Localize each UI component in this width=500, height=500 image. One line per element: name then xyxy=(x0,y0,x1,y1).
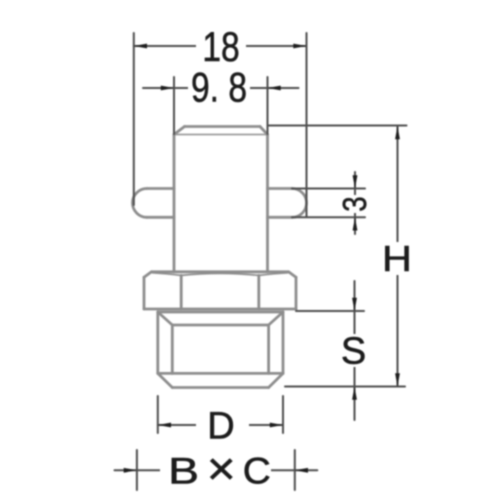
dim H arrow top xyxy=(395,126,400,139)
hex bottom edge xyxy=(144,308,296,311)
thread right edge xyxy=(282,312,285,373)
shaft chamfer line xyxy=(174,134,268,136)
shaft left edge xyxy=(173,135,176,272)
dim BxC left extension line xyxy=(136,450,138,490)
thread bottom-right chamfer xyxy=(269,373,283,387)
dim D line xyxy=(158,424,283,426)
dim D left extension line xyxy=(157,396,159,433)
crossbar bottom-left segment xyxy=(147,216,174,219)
svg-text:3: 3 xyxy=(337,196,374,211)
svg-text:H: H xyxy=(382,240,412,280)
crossbar bottom-right segment xyxy=(268,216,293,219)
dim 3 arrow top xyxy=(353,175,358,188)
thread bottom edge xyxy=(172,386,268,389)
dim 9.8 right extension line xyxy=(267,77,269,134)
dim 3 top extension line xyxy=(292,188,365,190)
dim 3 line middle xyxy=(354,189,356,218)
dim H line xyxy=(397,126,399,387)
thread top edge xyxy=(158,311,283,314)
dim 3 bottom extension line xyxy=(292,216,365,218)
dim 9.8 line middle xyxy=(174,87,268,89)
dim 9.8 left extension line xyxy=(173,77,175,134)
dim D arrow left xyxy=(158,423,171,428)
dim 18 arrow left xyxy=(134,44,147,49)
hex top-right chamfer xyxy=(289,272,297,278)
svg-text:C: C xyxy=(243,451,271,492)
crossbar right cap xyxy=(292,189,306,218)
dim S arrow bottom xyxy=(352,387,357,400)
dim D arrow right xyxy=(270,423,283,428)
dim 18 line xyxy=(134,45,307,47)
hex top-left chamfer xyxy=(144,272,152,278)
thread left edge xyxy=(156,312,159,373)
text masks xyxy=(160,30,411,484)
svg-text:×: × xyxy=(207,444,236,495)
svg-text:B: B xyxy=(168,450,199,492)
svg-text:18: 18 xyxy=(202,24,239,70)
dim 9.8 line left leader xyxy=(143,87,174,89)
dim S arrow top xyxy=(352,298,357,311)
thread bottom-left chamfer xyxy=(158,373,173,387)
dim S line xyxy=(354,281,356,420)
dim 9.8 arrow right xyxy=(268,86,281,91)
dim BxC right leader xyxy=(295,469,318,471)
dim S top extension line xyxy=(296,310,364,312)
hex left face arc xyxy=(152,273,181,276)
shaft right edge xyxy=(266,135,269,272)
thread inner right line xyxy=(267,325,270,373)
hex right edge xyxy=(295,277,298,309)
shaft top-right chamfer xyxy=(260,127,268,135)
dim 9.8 line right leader xyxy=(268,87,299,89)
crossbar top-left segment xyxy=(147,187,174,190)
hex left edge xyxy=(143,277,146,309)
svg-text:D: D xyxy=(207,405,234,447)
dim 3 lower leader xyxy=(354,217,356,234)
hex right face arc xyxy=(259,273,288,276)
hex top edge xyxy=(152,270,289,273)
dim BxC right extension line xyxy=(294,450,296,490)
dim 18 right extension line xyxy=(306,33,308,217)
thread top-right chamfer face line xyxy=(269,312,283,325)
dim BxC line middle xyxy=(137,469,295,471)
dim H top extension line xyxy=(268,125,407,127)
hex right face line xyxy=(257,275,260,309)
thread top-left chamfer face line xyxy=(158,312,173,325)
crossbar top-right segment xyxy=(268,187,293,190)
hex left face line xyxy=(180,275,183,309)
thread chamfer line xyxy=(158,372,283,375)
dim BxC left leader xyxy=(115,469,137,471)
shaft top-left chamfer xyxy=(174,127,185,135)
dim 18 arrow right xyxy=(293,44,306,49)
dim BxC arrow right xyxy=(295,468,308,473)
dim 3 arrow bottom xyxy=(353,217,358,230)
thread inner left line xyxy=(171,325,174,373)
dim H arrow bottom xyxy=(395,373,400,386)
dim 18 left extension line xyxy=(133,33,135,205)
thread inner top line xyxy=(172,324,268,327)
dim BxC arrow left xyxy=(124,468,137,473)
dim D right extension line xyxy=(282,396,284,433)
svg-text:S: S xyxy=(341,331,366,373)
hex middle face arc xyxy=(181,273,259,275)
dim 3 upper leader xyxy=(354,172,356,189)
shaft top edge xyxy=(185,125,261,128)
dim H / S bottom extension line xyxy=(285,386,405,388)
svg-text:9. 8: 9. 8 xyxy=(191,65,247,111)
dim 9.8 arrow left xyxy=(161,86,174,91)
crossbar left cap xyxy=(133,189,147,218)
